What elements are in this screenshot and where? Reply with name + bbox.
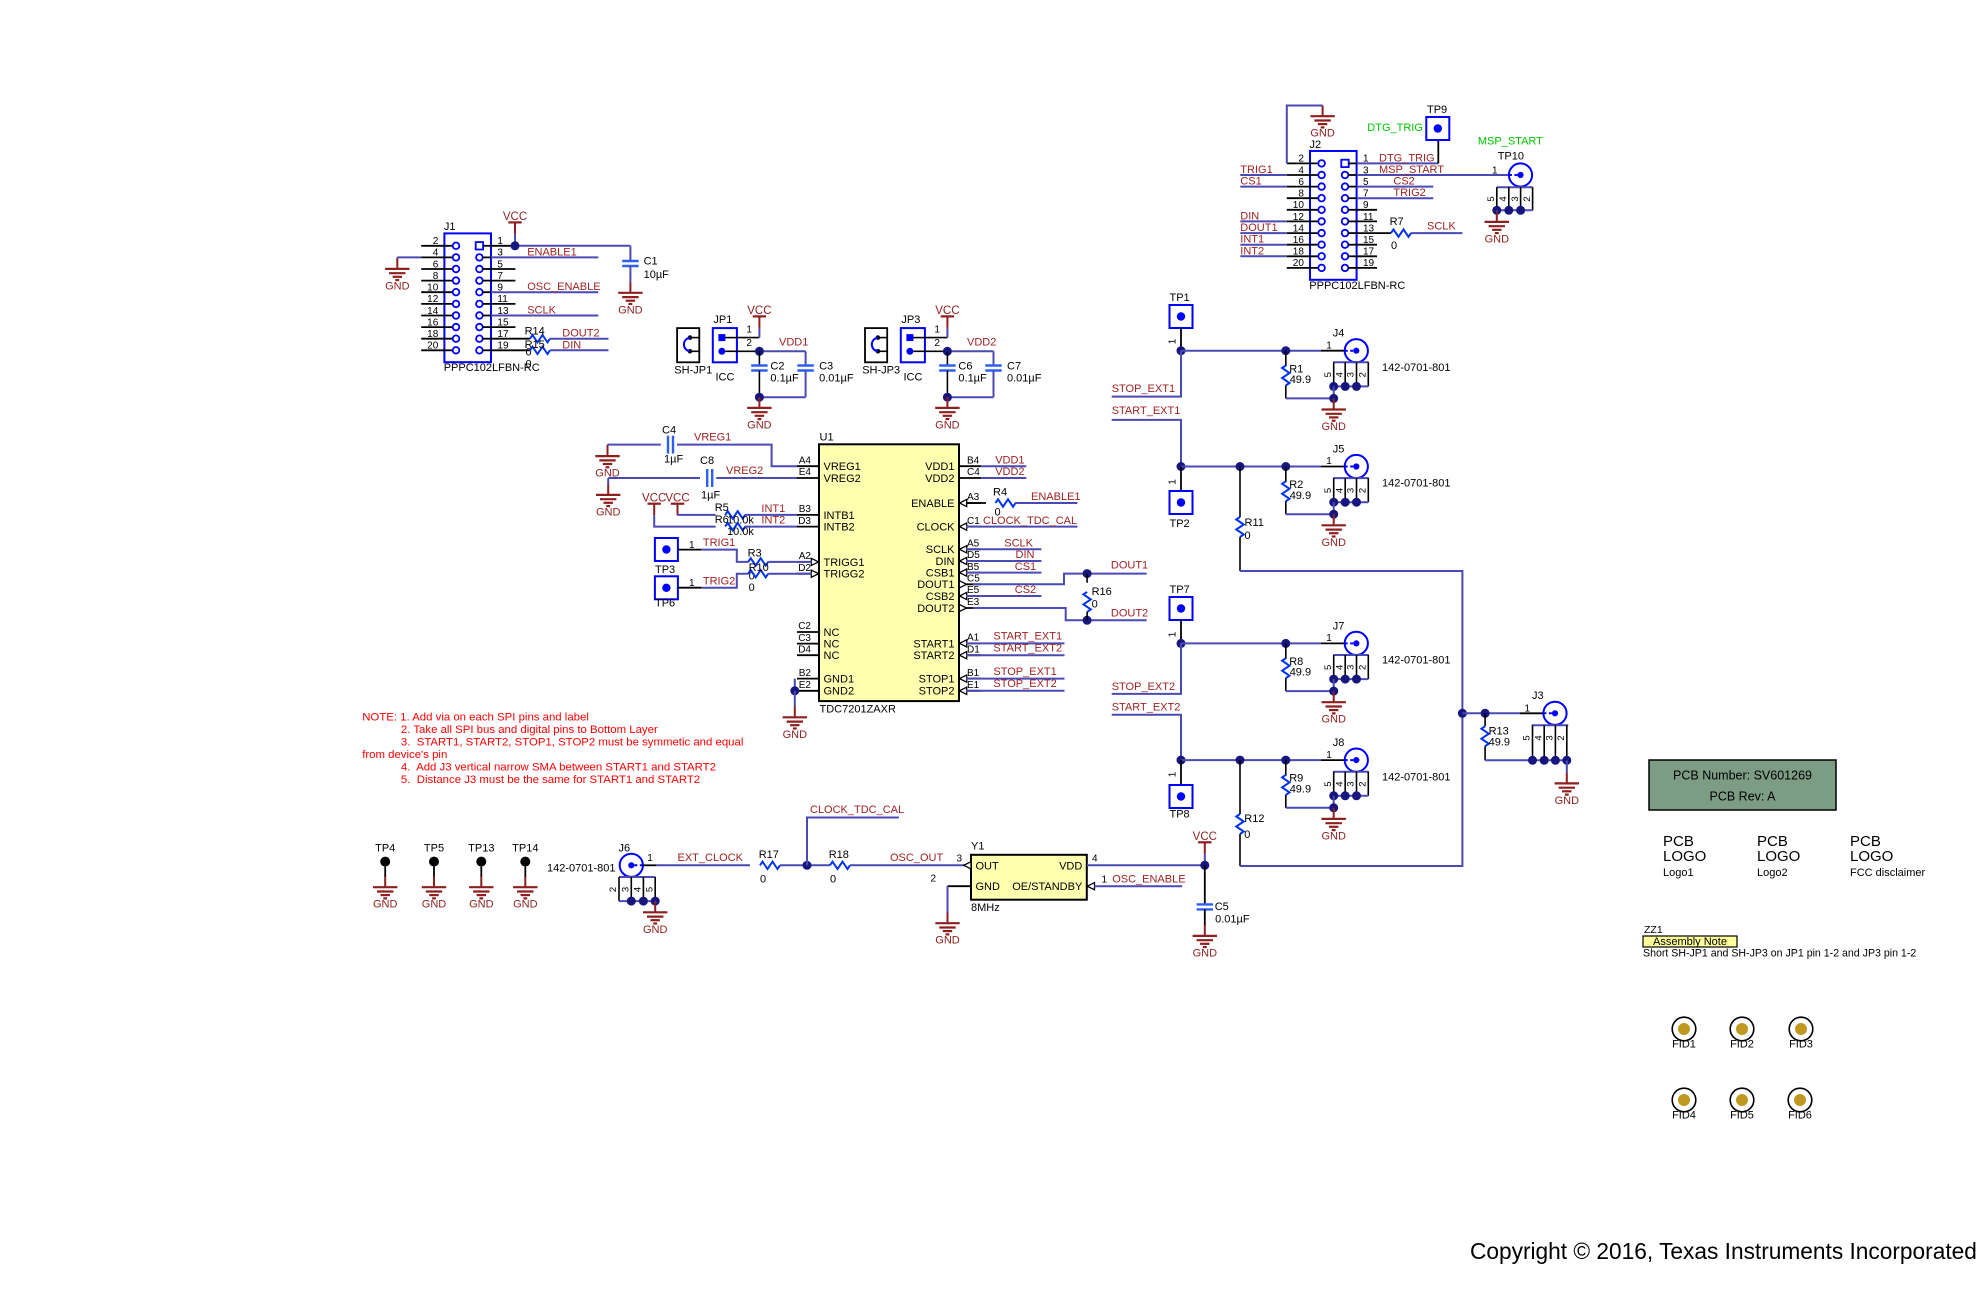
svg-text:1: 1 xyxy=(1167,631,1178,637)
svg-text:CLOCK_TDC_CAL: CLOCK_TDC_CAL xyxy=(983,515,1077,527)
wire J2 right stub xyxy=(1357,209,1377,211)
svg-text:A3: A3 xyxy=(967,492,980,503)
svg-text:C1: C1 xyxy=(644,256,658,268)
net label INT2 (J2) xyxy=(1240,255,1287,257)
svg-text:TP6: TP6 xyxy=(655,598,675,610)
svg-text:8MHz: 8MHz xyxy=(971,902,1000,914)
svg-text:A5: A5 xyxy=(967,539,980,550)
wire Y1 GND pin xyxy=(948,885,972,887)
svg-text:Logo2: Logo2 xyxy=(1757,867,1788,879)
svg-text:GND: GND xyxy=(1321,421,1346,433)
svg-text:142-0701-801: 142-0701-801 xyxy=(1382,478,1451,490)
svg-text:C3: C3 xyxy=(798,633,811,644)
svg-text:CS1: CS1 xyxy=(1015,561,1036,573)
U1 STOP2 input arrow xyxy=(960,687,967,694)
svg-text:DIN: DIN xyxy=(1016,549,1035,561)
junction TP10 stub xyxy=(1516,206,1525,215)
svg-text:DOUT2: DOUT2 xyxy=(917,603,954,615)
connector J8 xyxy=(1345,749,1368,772)
ground left of C4 xyxy=(607,445,609,457)
svg-text:TRIGG2: TRIGG2 xyxy=(824,569,865,581)
svg-text:GND: GND xyxy=(643,924,668,936)
svg-text:0.01µF: 0.01µF xyxy=(1215,914,1250,926)
net label OSC_ENABLE (Y1) xyxy=(1094,885,1182,887)
svg-text:20: 20 xyxy=(427,341,439,352)
svg-text:GND: GND xyxy=(618,304,643,316)
svg-text:2: 2 xyxy=(1298,154,1304,165)
svg-text:NC: NC xyxy=(824,627,840,639)
svg-text:FID6: FID6 xyxy=(1788,1110,1812,1122)
svg-text:U1: U1 xyxy=(820,432,834,444)
U1 TRIGG1 arrow xyxy=(811,558,818,565)
svg-text:NOTE: 1. Add via on each SPI p: NOTE: 1. Add via on each SPI pins and la… xyxy=(362,711,589,723)
svg-text:5. Distance J3 must be the sa: 5. Distance J3 must be the same for STAR… xyxy=(401,774,700,786)
svg-text:B5: B5 xyxy=(967,562,980,573)
svg-text:FID1: FID1 xyxy=(1672,1039,1696,1051)
net label CS2 (J2 pin5) xyxy=(1357,186,1434,188)
svg-text:ENABLE1: ENABLE1 xyxy=(1031,491,1081,503)
jumper shunt SH-JP3 xyxy=(862,328,900,376)
svg-text:C3: C3 xyxy=(819,360,833,372)
net label CS1 (J2) xyxy=(1240,186,1287,188)
wire R17 to R18 xyxy=(780,864,830,866)
svg-text:TP7: TP7 xyxy=(1170,584,1190,596)
J4 ground pins 2-5 xyxy=(1323,362,1369,386)
svg-text:GND: GND xyxy=(1193,947,1218,959)
net label ENABLE1 (U1) xyxy=(1015,502,1077,504)
svg-text:4: 4 xyxy=(633,887,644,892)
svg-text:GND: GND xyxy=(422,899,447,911)
svg-text:D1: D1 xyxy=(967,644,980,655)
svg-text:1: 1 xyxy=(1167,338,1178,344)
wire R11 to trunk xyxy=(1240,571,1463,866)
svg-text:START_EXT2: START_EXT2 xyxy=(1112,702,1181,714)
Y1 OUT arrow xyxy=(964,862,971,869)
power VCC (right pair) xyxy=(665,493,689,516)
junction DOUT2-R16 xyxy=(1083,616,1092,625)
wire R1 bottom xyxy=(1333,386,1335,398)
ground below TP14 xyxy=(524,867,526,877)
ground below JP1 xyxy=(758,397,760,408)
svg-text:1: 1 xyxy=(1102,874,1108,885)
svg-text:TRIG2: TRIG2 xyxy=(1393,187,1425,199)
svg-text:EXT_CLOCK: EXT_CLOCK xyxy=(678,852,744,864)
svg-text:GND: GND xyxy=(976,881,1001,893)
svg-text:E5: E5 xyxy=(967,585,980,596)
svg-text:R5: R5 xyxy=(715,502,729,514)
wire J2 pin2 to ground xyxy=(1287,106,1323,164)
wire START_EXT1 link xyxy=(1112,420,1181,467)
connector J1 xyxy=(421,221,540,374)
svg-text:INT2: INT2 xyxy=(761,515,785,527)
U1 DOUT2 output arrow xyxy=(959,604,966,611)
wire TP2 up xyxy=(1180,467,1182,492)
svg-text:1: 1 xyxy=(746,324,752,335)
svg-text:CLOCK: CLOCK xyxy=(917,522,956,534)
svg-text:MSP_START: MSP_START xyxy=(1478,135,1543,147)
svg-text:R10: R10 xyxy=(749,562,769,574)
U1 CLOCK input arrow xyxy=(960,523,967,530)
svg-text:TP4: TP4 xyxy=(375,843,395,855)
capacitor C8 xyxy=(707,469,712,487)
svg-text:GND1: GND1 xyxy=(824,674,855,686)
svg-text:0: 0 xyxy=(1092,599,1098,611)
svg-text:J7: J7 xyxy=(1333,620,1345,632)
resistor R12 xyxy=(1239,760,1241,814)
svg-text:GND: GND xyxy=(935,935,960,947)
svg-text:DTG_TRIG: DTG_TRIG xyxy=(1379,152,1435,164)
power VCC at J1 pin1 xyxy=(503,211,527,234)
jumper JP1 xyxy=(713,314,753,384)
junction U1 GND2 xyxy=(790,686,799,695)
svg-text:6: 6 xyxy=(433,259,439,270)
wire R2 bottom xyxy=(1333,502,1335,514)
svg-text:VCC: VCC xyxy=(935,305,959,317)
connector J4 xyxy=(1345,339,1368,362)
svg-text:2. Take all SPI bus and digita: 2. Take all SPI bus and digital pins to … xyxy=(401,724,658,736)
svg-text:INT1: INT1 xyxy=(761,503,785,515)
wire J2 right stub xyxy=(1357,255,1377,257)
svg-text:3. START1, START2, STOP1, STO: 3. START1, START2, STOP1, STOP2 must be … xyxy=(401,736,744,748)
wire R13 bottom xyxy=(1485,759,1567,761)
svg-text:20: 20 xyxy=(1293,258,1305,269)
svg-text:Y1: Y1 xyxy=(971,840,984,852)
svg-text:0.01µF: 0.01µF xyxy=(819,373,854,385)
svg-text:E4: E4 xyxy=(799,467,812,478)
svg-text:5: 5 xyxy=(1522,735,1533,740)
svg-text:DOUT1: DOUT1 xyxy=(1111,559,1148,571)
svg-text:TP14: TP14 xyxy=(512,843,538,855)
svg-text:DIN: DIN xyxy=(1240,210,1259,222)
fiducial FID6 xyxy=(1788,1088,1812,1112)
wire J4 row xyxy=(1181,350,1286,352)
svg-text:4: 4 xyxy=(1498,196,1509,201)
svg-text:1: 1 xyxy=(1326,633,1332,644)
svg-text:TP2: TP2 xyxy=(1170,518,1190,530)
svg-text:A4: A4 xyxy=(799,455,812,466)
svg-text:2: 2 xyxy=(1358,781,1369,786)
svg-text:VCC: VCC xyxy=(642,493,666,505)
svg-text:R16: R16 xyxy=(1092,586,1112,598)
net label INT1 (J2) xyxy=(1240,244,1287,246)
resistor R15 xyxy=(491,349,530,351)
U1 TRIGG2 arrow xyxy=(811,570,818,577)
svg-text:C6: C6 xyxy=(958,360,972,372)
U1 CSB1 input arrow xyxy=(960,569,967,576)
svg-text:D5: D5 xyxy=(967,550,980,561)
svg-text:GND: GND xyxy=(385,280,410,292)
svg-text:INT2: INT2 xyxy=(1240,245,1264,257)
net label DIN (J1) xyxy=(550,349,609,351)
op-amp U1 TDC7201ZAXR body xyxy=(819,444,959,701)
U1 START1 input arrow xyxy=(960,640,967,647)
svg-text:R3: R3 xyxy=(748,547,762,559)
svg-text:4: 4 xyxy=(433,248,439,259)
capacitor C5 xyxy=(1204,865,1206,904)
svg-text:0: 0 xyxy=(1391,240,1397,252)
junction VCC-C5 xyxy=(1200,861,1209,870)
wire J6 pin1 xyxy=(643,864,657,866)
svg-text:TP3: TP3 xyxy=(655,564,675,576)
svg-text:GND: GND xyxy=(373,899,398,911)
svg-text:J4: J4 xyxy=(1333,328,1345,340)
svg-text:TRIG1: TRIG1 xyxy=(1240,164,1272,176)
junction J4 gnd node xyxy=(1329,394,1338,403)
svg-text:1: 1 xyxy=(1492,165,1498,176)
svg-text:5: 5 xyxy=(1323,781,1334,786)
svg-text:VREG1: VREG1 xyxy=(694,432,731,444)
test point TP5 xyxy=(429,857,439,867)
svg-text:A1: A1 xyxy=(967,633,980,644)
junction trunk J3 xyxy=(1458,709,1467,718)
svg-text:CS1: CS1 xyxy=(1240,176,1261,188)
test point TP8 xyxy=(1170,785,1193,808)
wire VREG1 net xyxy=(608,444,661,446)
resistor R2 xyxy=(1285,467,1287,483)
junction TP2 node xyxy=(1177,462,1186,471)
jumper JP3 xyxy=(901,314,941,384)
svg-text:SH-JP1: SH-JP1 xyxy=(674,365,712,377)
junction J8 stub xyxy=(1352,791,1361,800)
svg-text:16: 16 xyxy=(1293,235,1305,246)
svg-text:C1: C1 xyxy=(967,516,980,527)
U1 left pin stubs xyxy=(362,292,1977,1264)
wire JP3 pin1 to VCC xyxy=(925,337,948,339)
svg-text:1: 1 xyxy=(1326,750,1332,761)
svg-text:JP1: JP1 xyxy=(713,314,732,326)
svg-text:TP10: TP10 xyxy=(1498,150,1524,162)
svg-text:START2: START2 xyxy=(913,650,954,662)
net label MSP_START (J2 pin3) xyxy=(1357,174,1509,176)
U1 DIN input arrow xyxy=(960,557,967,564)
fiducial FID4 xyxy=(1672,1088,1696,1112)
junction TP8 node xyxy=(1177,756,1186,765)
TP10 ground pins 2-5 xyxy=(1486,187,1533,210)
svg-text:R11: R11 xyxy=(1245,517,1264,529)
svg-text:NC: NC xyxy=(824,639,840,651)
svg-text:JP3: JP3 xyxy=(901,314,920,326)
junction J8 stub xyxy=(1341,791,1350,800)
net label STOP_EXT2 (U1) xyxy=(966,690,1065,692)
svg-text:TP1: TP1 xyxy=(1170,292,1190,304)
fiducial FID5 xyxy=(1730,1088,1754,1112)
svg-text:VDD2: VDD2 xyxy=(995,466,1024,478)
junction J8 stub xyxy=(1329,791,1338,800)
net label CS1 (U1) xyxy=(966,572,1041,574)
wire C6-C7 bottoms xyxy=(947,396,993,398)
svg-text:0: 0 xyxy=(526,359,532,371)
wire VCC to R6 xyxy=(654,515,716,526)
svg-text:OUT: OUT xyxy=(976,860,1000,872)
svg-text:C4: C4 xyxy=(662,425,676,437)
wire DOUT1 net xyxy=(973,574,1147,585)
svg-text:J5: J5 xyxy=(1333,444,1345,456)
svg-text:GND: GND xyxy=(1321,830,1346,842)
test point TP3 xyxy=(655,538,678,561)
svg-text:A2: A2 xyxy=(799,551,812,562)
svg-text:10: 10 xyxy=(427,283,439,294)
svg-text:ICC: ICC xyxy=(904,372,923,384)
svg-text:5: 5 xyxy=(1323,372,1334,377)
ground below TP5 xyxy=(433,867,435,877)
net label DTG_TRIG (J2 pin1) xyxy=(1357,162,1439,164)
svg-text:J1: J1 xyxy=(444,221,456,233)
svg-text:3: 3 xyxy=(956,854,962,865)
wire OSC_OUT xyxy=(850,864,971,866)
wire TP7 down xyxy=(1180,620,1182,643)
svg-text:0: 0 xyxy=(1244,829,1250,841)
svg-text:5: 5 xyxy=(1323,488,1334,493)
svg-text:R18: R18 xyxy=(829,849,849,861)
svg-text:D3: D3 xyxy=(798,516,811,527)
svg-text:PPPC102LFBN-RC: PPPC102LFBN-RC xyxy=(1309,280,1405,292)
svg-text:START_EXT1: START_EXT1 xyxy=(993,631,1062,643)
svg-text:INT1: INT1 xyxy=(1240,234,1264,246)
net label CLOCK_TDC_CAL (U1) xyxy=(966,526,1077,528)
wire VCC to R5 xyxy=(677,514,679,516)
svg-text:VDD1: VDD1 xyxy=(995,454,1024,466)
junction TP1 node xyxy=(1177,346,1186,355)
wire J1 pin5 stub xyxy=(491,268,515,270)
svg-text:ENABLE: ENABLE xyxy=(911,498,954,510)
svg-text:DOUT2: DOUT2 xyxy=(1111,607,1148,619)
svg-text:GND: GND xyxy=(935,419,960,431)
svg-text:GND: GND xyxy=(469,899,494,911)
svg-text:FID5: FID5 xyxy=(1730,1110,1754,1122)
svg-text:GND2: GND2 xyxy=(824,686,855,698)
connector J2 xyxy=(1287,139,1406,292)
svg-text:16: 16 xyxy=(427,317,439,328)
svg-text:LOGO: LOGO xyxy=(1663,848,1706,865)
wire TP3 to R3 xyxy=(678,549,702,551)
svg-text:142-0701-801: 142-0701-801 xyxy=(1382,362,1451,374)
resistor R11 xyxy=(1239,467,1241,518)
junction J6 stub xyxy=(639,897,648,906)
svg-text:8: 8 xyxy=(433,271,439,282)
svg-text:4: 4 xyxy=(1334,665,1345,670)
svg-text:STOP_EXT1: STOP_EXT1 xyxy=(993,666,1056,678)
ground below Y1 xyxy=(947,913,949,924)
svg-text:0.01µF: 0.01µF xyxy=(1007,373,1042,385)
junction DOUT1-R16 xyxy=(1083,569,1092,578)
svg-text:5: 5 xyxy=(1486,196,1497,201)
wire J7 row xyxy=(1181,642,1286,644)
wire J2 right stub xyxy=(1357,244,1377,246)
svg-text:2: 2 xyxy=(433,236,439,247)
svg-text:SCLK: SCLK xyxy=(1427,221,1456,233)
svg-text:R12: R12 xyxy=(1244,813,1264,825)
ground below C5 xyxy=(1204,925,1206,936)
svg-text:R14: R14 xyxy=(525,326,545,338)
svg-text:ICC: ICC xyxy=(716,372,735,384)
svg-text:GND: GND xyxy=(747,419,772,431)
capacitor C3 xyxy=(805,351,807,365)
svg-text:ENABLE1: ENABLE1 xyxy=(527,246,577,258)
wire TP6 to R10 xyxy=(678,587,702,589)
svg-text:VDD1: VDD1 xyxy=(779,336,808,348)
resistor R14 xyxy=(491,338,530,340)
test point TP6 xyxy=(655,576,678,599)
svg-text:J6: J6 xyxy=(619,843,631,855)
svg-text:Short SH-JP1 and SH-JP3 on JP1: Short SH-JP1 and SH-JP3 on JP1 pin 1-2 a… xyxy=(1643,948,1916,960)
svg-text:D2: D2 xyxy=(798,563,811,574)
wire TP8 up xyxy=(1180,760,1182,785)
svg-text:1: 1 xyxy=(1326,456,1332,467)
net label SCLK (J2) xyxy=(1411,232,1462,234)
svg-text:3: 3 xyxy=(1346,665,1357,670)
junction J7 stub xyxy=(1341,675,1350,684)
junction J7 gnd node xyxy=(1329,687,1338,696)
wire Y1 VDD to VCC xyxy=(1087,864,1205,866)
svg-text:TP8: TP8 xyxy=(1170,809,1190,821)
svg-text:GND: GND xyxy=(1310,128,1335,140)
capacitor C2 xyxy=(758,351,760,365)
svg-text:2: 2 xyxy=(1522,196,1533,201)
svg-text:VCC: VCC xyxy=(747,305,771,317)
svg-text:6: 6 xyxy=(1298,177,1304,188)
wire JP1 pin1 to VCC xyxy=(737,337,760,339)
svg-text:12: 12 xyxy=(427,294,439,305)
svg-text:GND: GND xyxy=(513,899,538,911)
svg-text:J8: J8 xyxy=(1333,737,1345,749)
svg-text:2: 2 xyxy=(934,338,940,349)
svg-text:DTG_TRIG: DTG_TRIG xyxy=(1367,122,1423,134)
U1 STOP1 input arrow xyxy=(960,675,967,682)
power VCC (left pair) xyxy=(642,493,666,516)
svg-text:3: 3 xyxy=(1346,781,1357,786)
svg-text:C2: C2 xyxy=(770,360,784,372)
svg-text:START1: START1 xyxy=(913,638,954,650)
junction J4 stub xyxy=(1329,382,1338,391)
net label TRIG1 (J2) xyxy=(1240,174,1287,176)
svg-text:14: 14 xyxy=(1293,223,1305,234)
svg-text:CSB2: CSB2 xyxy=(926,591,955,603)
svg-text:0.1µF: 0.1µF xyxy=(770,373,799,385)
svg-text:0: 0 xyxy=(1245,530,1251,542)
resistor R17 xyxy=(760,862,780,869)
svg-text:LOGO: LOGO xyxy=(1850,848,1893,865)
connector J7 xyxy=(1345,632,1368,655)
wire TP1 down xyxy=(1180,328,1182,351)
svg-text:R6: R6 xyxy=(715,514,729,526)
svg-text:TDC7201ZAXR: TDC7201ZAXR xyxy=(820,704,896,716)
fiducial FID3 xyxy=(1789,1017,1813,1041)
svg-text:B3: B3 xyxy=(799,504,812,515)
ground below C1 xyxy=(629,282,631,293)
power VCC at JP1 xyxy=(747,305,771,328)
wire J1 pin7 stub xyxy=(491,280,515,282)
wire R10 to TRIGG2 xyxy=(768,573,812,575)
svg-text:0.1µF: 0.1µF xyxy=(958,373,987,385)
svg-text:C2: C2 xyxy=(798,621,811,632)
junction CLOCK_TDC_CAL xyxy=(803,861,812,870)
svg-text:TP13: TP13 xyxy=(468,843,494,855)
net label OSC_ENABLE xyxy=(491,291,598,293)
junction J8 gnd node xyxy=(1329,803,1338,812)
U1 DOUT1 output arrow xyxy=(959,581,966,588)
wire U1 grounds xyxy=(794,679,796,691)
oscillator Y1 body xyxy=(971,855,1087,900)
junction J3 stub xyxy=(1528,756,1537,765)
svg-text:5: 5 xyxy=(644,887,655,892)
connector J5 xyxy=(1345,455,1368,478)
svg-text:FID4: FID4 xyxy=(1672,1110,1696,1122)
svg-text:2: 2 xyxy=(1358,488,1369,493)
svg-text:DOUT1: DOUT1 xyxy=(1240,222,1277,234)
ground below J7 xyxy=(1333,691,1335,702)
svg-text:2: 2 xyxy=(746,338,752,349)
wire STOP_EXT1 link xyxy=(1112,351,1181,397)
